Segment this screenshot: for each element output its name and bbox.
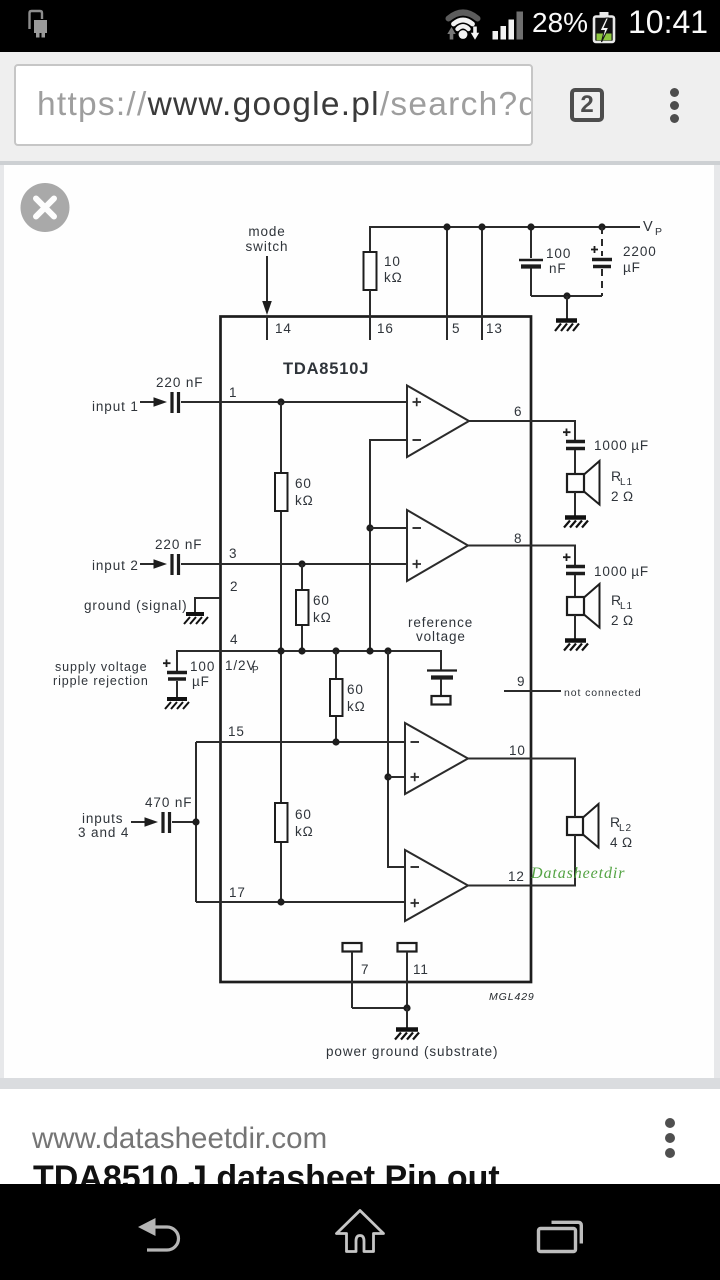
wire pin 13 from rail (481, 227, 483, 340)
resistor R-mode 10 kOhm (364, 252, 377, 290)
speaker RL1b (567, 597, 584, 615)
wire speaker RL1a to ground (574, 492, 576, 516)
wire A1 feedback to node between amps (370, 440, 407, 651)
IC U1 TDA8510J body (221, 317, 532, 983)
capacitor C-2200uF polarity plus (591, 246, 598, 253)
wire caps to ground (531, 295, 602, 297)
resistor R3 60k leads (335, 651, 337, 742)
signal bars (493, 31, 499, 40)
terminal tab pin 7 (343, 943, 362, 952)
junction input1/R1 (277, 398, 284, 405)
arrow input 1 (140, 401, 155, 403)
svg-text:L1: L1 (620, 601, 633, 612)
wire R2 leads (301, 564, 303, 651)
svg-text:100: 100 (190, 659, 215, 674)
resistor R3 60k body (330, 679, 343, 716)
wire speaker RL2 top lead (574, 804, 576, 817)
capacitor C-100nF top leads (530, 227, 532, 296)
wire to A2 minus (370, 527, 407, 529)
ground (RL1b) (564, 641, 588, 651)
junction 470nF/vertical (192, 818, 199, 825)
svg-text:supply voltage: supply voltage (55, 660, 148, 674)
svg-text:voltage: voltage (416, 629, 466, 644)
ICONS_STATUS (30, 11, 615, 42)
capacitor C-100nF plates (519, 259, 543, 261)
svg-text:input 2: input 2 (92, 558, 139, 573)
wire inputs 3-4 left vertical (195, 742, 197, 902)
svg-text:220 nF: 220 nF (156, 375, 203, 390)
wire pin 7 drop (351, 952, 353, 1009)
terminal tab pin 11 (398, 943, 417, 952)
capacitor C-ripple 100uF plates (167, 671, 187, 674)
svg-text:MGL429: MGL429 (489, 991, 535, 1003)
wire pin 16 from resistor (369, 290, 371, 340)
svg-text:4 Ω: 4 Ω (610, 835, 633, 850)
svg-text:4: 4 (230, 632, 238, 647)
battery percent (532, 7, 588, 39)
mode switch arrow into pin 14 (266, 256, 268, 302)
ground (RL1a) (564, 518, 588, 528)
svg-text:16: 16 (377, 321, 394, 336)
svg-text:470 nF: 470 nF (145, 795, 192, 810)
wire ground drop (566, 296, 568, 319)
op-amp A3 (405, 723, 468, 794)
svg-text:L1: L1 (620, 477, 633, 488)
junction rail/C2200 (598, 223, 605, 230)
svg-text:kΩ: kΩ (347, 699, 366, 714)
svg-text:L2: L2 (619, 823, 632, 834)
junction rail/R2 (298, 647, 305, 654)
capacitor C-in2 220nF plates (172, 554, 179, 575)
svg-text:60: 60 (347, 682, 364, 697)
ground (ripple cap) (165, 699, 189, 709)
wire pin 17 to A4 plus (196, 901, 405, 903)
op-amp A1 minus input mark (413, 439, 422, 441)
capacitor C-out1 1000uF plates (566, 440, 585, 444)
op-amp A1 plus input mark (413, 398, 422, 406)
wire pin 14 stub (266, 316, 268, 340)
wire pin 11 drop (406, 952, 408, 1009)
svg-text:P: P (655, 226, 663, 238)
wire speaker RL2 to pin 12 (468, 835, 575, 886)
svg-text:ground (signal): ground (signal) (84, 598, 188, 613)
svg-text:reference: reference (408, 615, 473, 630)
tab counter button (570, 88, 604, 122)
sim/usb notification icon (30, 11, 43, 29)
junction feedback/A2 minus (366, 524, 373, 531)
status bar clock (628, 4, 708, 41)
svg-text:5: 5 (452, 321, 460, 336)
junction pin17/R4 (277, 898, 284, 905)
svg-text:power ground (substrate): power ground (substrate) (326, 1044, 498, 1059)
svg-text:ripple rejection: ripple rejection (53, 674, 149, 688)
wire speaker RL1b to ground (574, 615, 576, 639)
svg-text:60: 60 (295, 807, 312, 822)
op-amp A2 plus input mark (413, 560, 422, 568)
svg-text:1: 1 (229, 385, 237, 400)
svg-text:2 Ω: 2 Ω (611, 489, 634, 504)
junction rail/feedback (366, 647, 373, 654)
content gutter background (0, 165, 720, 1078)
svg-text:14: 14 (275, 321, 292, 336)
junction rail/R3 (332, 647, 339, 654)
svg-text:1000 µF: 1000 µF (594, 438, 649, 453)
svg-text:µF: µF (623, 260, 641, 275)
svg-text:nF: nF (549, 261, 567, 276)
wire pin 2 signal ground stub (194, 598, 220, 613)
capacitor C-ref plates (427, 669, 457, 671)
svg-text:10: 10 (509, 743, 526, 758)
svg-text:9: 9 (517, 674, 525, 689)
ground (power substrate) (395, 1030, 419, 1040)
arrow inputs 3 and 4 (131, 821, 146, 823)
wire pin 9 stub (504, 690, 561, 692)
junction rail/pin5 (443, 223, 450, 230)
speaker RL1a (567, 474, 584, 492)
svg-text:not connected: not connected (564, 687, 642, 699)
capacitor C-out2 1000uF plates (566, 565, 585, 569)
junction ground tap (563, 292, 570, 299)
op-amp A3 minus input mark (411, 741, 420, 743)
svg-text:15: 15 (228, 724, 245, 739)
svg-text:3: 3 (229, 546, 237, 561)
battery icon (600, 12, 609, 18)
wire C-out2 to speaker RL1b (574, 575, 576, 597)
capacitor C-out1 1000uF polarity plus (563, 429, 571, 437)
svg-text:60: 60 (295, 476, 312, 491)
image white area (4, 165, 714, 1078)
svg-text:1000 µF: 1000 µF (594, 564, 649, 579)
terminal tab (reference) (432, 696, 451, 705)
op-amp A3 plus input mark (411, 773, 420, 781)
svg-text:13: 13 (486, 321, 503, 336)
svg-text:7: 7 (361, 962, 369, 977)
junction rail/bias (384, 647, 391, 654)
svg-text:10: 10 (384, 254, 401, 269)
wire pin 15 to A3 minus (196, 741, 405, 743)
page heading (cut off by nav bar) (33, 1159, 500, 1198)
svg-text:6: 6 (514, 404, 522, 419)
capacitor C-ripple 100uF polarity plus (163, 660, 171, 668)
chrome bottom divider (0, 161, 720, 165)
capacitor C-in34 470nF plates (163, 812, 170, 833)
svg-text:2: 2 (230, 579, 238, 594)
capacitor C-in1 220nF plates (172, 392, 179, 413)
svg-text:kΩ: kΩ (384, 270, 403, 285)
svg-text:P: P (252, 665, 260, 676)
page menu dots (665, 1118, 675, 1128)
wire A3 output pin 10 (468, 759, 575, 805)
wifi down arrow (white) (471, 33, 479, 40)
svg-text:µF: µF (192, 674, 210, 689)
svg-text:switch: switch (246, 239, 289, 254)
svg-text:60: 60 (313, 593, 330, 608)
svg-text:TDA8510J: TDA8510J (283, 360, 369, 378)
svg-text:input 1: input 1 (92, 399, 139, 414)
svg-text:Datasheetdir: Datasheetdir (530, 865, 625, 882)
svg-text:V: V (643, 219, 654, 235)
svg-text:3 and 4: 3 and 4 (78, 825, 129, 840)
wire pins 7-11 tie (352, 1007, 407, 1009)
wire C-out1 to speaker RL1a (574, 450, 576, 474)
svg-text:mode: mode (248, 224, 285, 239)
svg-text:11: 11 (413, 962, 429, 977)
nav home button (337, 1211, 384, 1252)
wire 470nF to vertical (172, 821, 196, 823)
wire C-ripple to ground (176, 681, 178, 698)
site url text (32, 1122, 327, 1156)
wire half-Vp rail (pin 4) (177, 651, 441, 672)
svg-text:kΩ: kΩ (313, 610, 332, 625)
op-amp A4 (405, 850, 468, 921)
svg-text:8: 8 (514, 531, 522, 546)
capacitor C-2200uF dashed leads (601, 227, 603, 296)
ground (signal) symbol (184, 614, 208, 624)
capacitor C-2200uF plates (592, 258, 612, 262)
svg-text:kΩ: kΩ (295, 824, 314, 839)
wire bias to A3 plus (388, 776, 405, 778)
svg-text:100: 100 (546, 246, 571, 261)
arrow input 2 (140, 563, 155, 565)
svg-text:17: 17 (229, 885, 246, 900)
wire input2 to op-amp A2 + (181, 563, 407, 565)
junction bias/A3 plus (384, 773, 391, 780)
URL box (14, 64, 533, 146)
resistor R2 60k body (296, 590, 309, 625)
svg-text:2 Ω: 2 Ω (611, 613, 634, 628)
white page strip (0, 1089, 720, 1184)
op-amp A2 minus input mark (413, 527, 422, 529)
band below image (0, 1078, 720, 1089)
wire bias vertical to A3+/A4- (388, 651, 405, 867)
resistor R1 60k body (275, 473, 288, 511)
wifi icon (449, 13, 478, 30)
svg-text:2200: 2200 (623, 244, 657, 259)
junction rail/node1 (277, 647, 284, 654)
junction rail/C100nF (527, 223, 534, 230)
nav recents button (539, 1229, 576, 1252)
svg-text:inputs: inputs (82, 811, 123, 826)
op-amp A2 (407, 510, 468, 581)
op-amp A4 minus input mark (411, 866, 420, 868)
browser chrome background (0, 52, 720, 161)
wire A1 output pin 6 (469, 421, 575, 440)
nav back button (138, 1218, 156, 1236)
wire input1 to op-amp A1 + (181, 401, 407, 403)
junction input2/R2 (298, 560, 305, 567)
svg-text:220 nF: 220 nF (155, 537, 202, 552)
junction rail/pin13 (478, 223, 485, 230)
wire node1 vertical through R1 and R4 (280, 402, 282, 902)
CLOSE_BUTTON (21, 183, 70, 232)
ground (supply caps) (555, 321, 579, 332)
bottom nav bar (0, 1184, 720, 1280)
wire A2 output pin 8 (468, 546, 575, 566)
svg-text:kΩ: kΩ (295, 493, 314, 508)
ICONS_NAV (138, 1211, 581, 1252)
resistor R4 60k body (275, 803, 288, 842)
svg-text:12: 12 (508, 869, 525, 884)
capacitor C-out2 1000uF polarity plus (563, 554, 571, 562)
op-amp A4 plus input mark (411, 899, 420, 907)
wire Vp top rail (370, 227, 640, 252)
wire C-ref stem (440, 679, 442, 696)
charging bolt (600, 18, 609, 42)
speaker RL2 (567, 817, 583, 835)
status bar (0, 0, 720, 52)
wire to power ground (406, 1008, 408, 1028)
junction pin15/R3 (332, 738, 339, 745)
chrome menu dots (670, 88, 679, 97)
wire pin 5 from rail (446, 227, 448, 340)
junction power ground (403, 1004, 410, 1011)
op-amp A1 (407, 386, 469, 458)
wifi up arrow (grey) (447, 27, 455, 34)
